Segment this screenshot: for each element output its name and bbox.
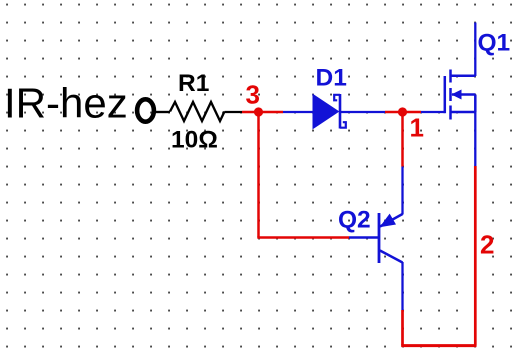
svg-text:Q2: Q2 (338, 207, 371, 234)
svg-text:IR-hez: IR-hez (4, 80, 128, 127)
wire net2 bottom horizontal (401, 344, 476, 347)
mosfet Q1 (445, 70, 476, 120)
svg-text:10Ω: 10Ω (171, 127, 218, 154)
wire Q1 source vertical blue (474, 112, 476, 166)
svg-text:1: 1 (410, 113, 424, 143)
wire net2 collector red (401, 310, 404, 346)
svg-text:Q1: Q1 (478, 30, 511, 57)
svg-text:2: 2 (480, 230, 494, 260)
diode D1 anode lead (283, 111, 314, 113)
wire Q1 drain vertical (474, 23, 476, 77)
wire Q1 gate lead blue (421, 111, 445, 113)
wire Q2 emitter vertical blue (401, 167, 403, 215)
wire net1 vertical red (401, 112, 404, 167)
wire net3 highlight horizontal (242, 111, 283, 114)
wire terminal to R1 (154, 111, 170, 113)
node 1 junction dot (398, 107, 407, 116)
resistor R1 (170, 102, 225, 121)
svg-text:3: 3 (246, 80, 260, 110)
terminal circle (137, 99, 154, 121)
node 3 junction dot (254, 107, 263, 116)
wire net3 horizontal to Q2 base (257, 236, 349, 239)
svg-text:R1: R1 (178, 70, 209, 97)
wire net1 highlight horizontal (385, 111, 421, 114)
diode D1 schottky (313, 94, 346, 129)
diode D1 cathode lead (340, 111, 385, 113)
wire Q2 collector vertical blue (401, 262, 403, 310)
wire R1 to net3 (black) (225, 111, 243, 113)
transistor Q2 (349, 213, 403, 263)
svg-text:D1: D1 (316, 65, 347, 92)
wire net2 right vertical (474, 166, 477, 346)
wire net3 vertical (257, 112, 260, 238)
